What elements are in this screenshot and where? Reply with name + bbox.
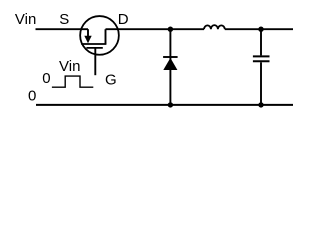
transistor Q1 body circle bbox=[80, 16, 119, 55]
svg-text:G: G bbox=[105, 71, 117, 88]
wire: drain to inductor bbox=[106, 28, 205, 30]
node: bottom diode junction bbox=[168, 102, 173, 107]
diode D1 bbox=[163, 29, 178, 105]
node: top capacitor junction bbox=[258, 27, 263, 32]
gate drive pulse waveform bbox=[52, 76, 93, 87]
svg-text:D: D bbox=[118, 11, 129, 28]
inductor L1 bbox=[204, 25, 225, 29]
svg-text:0: 0 bbox=[42, 70, 50, 87]
transistor Q1 channel bar bbox=[81, 43, 106, 45]
wire: Vin input to MOSFET source bbox=[36, 28, 89, 30]
svg-text:0: 0 bbox=[28, 87, 36, 104]
node: top diode junction bbox=[168, 27, 173, 32]
transistor Q1 drain contact bbox=[105, 29, 107, 44]
svg-text:Vin: Vin bbox=[59, 58, 80, 75]
wire: inductor to output bbox=[225, 28, 293, 30]
svg-text:S: S bbox=[59, 11, 69, 28]
node: bottom capacitor junction bbox=[258, 102, 263, 107]
transistor Q1 gate lead bbox=[94, 48, 96, 75]
transistor Q1 source contact with down arrow bbox=[84, 29, 91, 43]
ground rail (0 V) bbox=[36, 104, 293, 106]
capacitor C1 bbox=[253, 29, 270, 105]
svg-text:Vin: Vin bbox=[15, 11, 36, 28]
transistor Q1 gate bar bbox=[86, 47, 102, 49]
